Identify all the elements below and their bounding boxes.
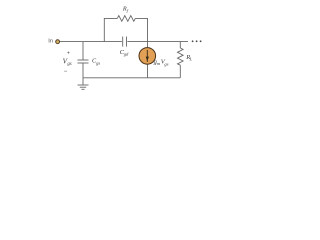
svg-text:gd: gd	[124, 51, 129, 56]
svg-text:−: −	[64, 69, 68, 75]
svg-text:gs: gs	[96, 60, 100, 65]
svg-text:gs: gs	[67, 62, 71, 67]
svg-text:In: In	[48, 39, 53, 45]
svg-text:gs: gs	[164, 61, 168, 66]
svg-text:+: +	[67, 50, 70, 56]
svg-text:L: L	[189, 56, 193, 61]
